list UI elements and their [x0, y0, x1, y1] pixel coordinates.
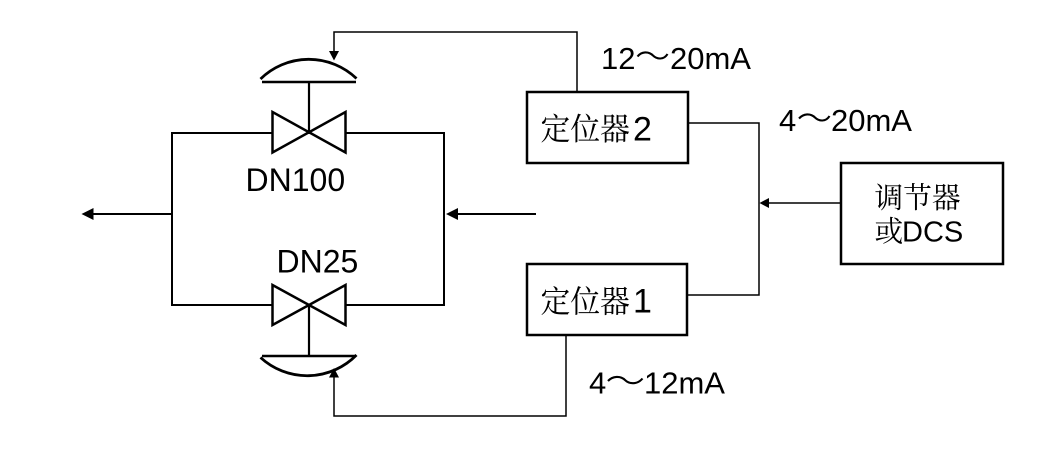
wire: signal from positioner2 top to actuator A1: [334, 32, 577, 92]
svg-text:12: 12: [601, 41, 635, 76]
pipe loop rectangle: [172, 133, 444, 305]
actuator A2 (bottom) diaphragm baseline: [262, 355, 356, 357]
valve V2 stem: [308, 305, 310, 356]
text 或DCS in controller box: [876, 217, 902, 244]
arrowhead: outlet arrow: [82, 208, 94, 220]
svg-text:20mA: 20mA: [831, 103, 912, 138]
actuator A1 (top) diaphragm baseline: [262, 81, 356, 83]
box positioner2 定位器2: [527, 92, 688, 163]
wire: positioner2 right to bus: [687, 123, 759, 295]
arrowhead: up into A2: [329, 368, 339, 378]
svg-text:20mA: 20mA: [670, 41, 751, 76]
box controller 调节器或DCS: [841, 163, 1003, 264]
wire: outlet line left: [90, 213, 172, 215]
wire: controller to bus: [768, 202, 841, 204]
svg-text:2: 2: [633, 111, 652, 149]
arrowhead: into bus: [760, 198, 770, 208]
tilde wave 1: [638, 52, 668, 58]
svg-text:DN100: DN100: [246, 162, 346, 198]
text 定位器1 in positioner1 box: [542, 286, 630, 315]
wire: inlet line right: [455, 213, 536, 215]
valve V1 (top, DN100) body: [273, 112, 346, 153]
valve V2 (bottom, DN25) body: [273, 285, 346, 325]
svg-text:1: 1: [633, 283, 652, 321]
actuator A1 dome arc: [261, 59, 357, 79]
tilde wave 3: [608, 377, 643, 383]
text 定位器2 in positioner2 box: [542, 114, 630, 143]
valve V1 stem: [308, 82, 310, 133]
svg-text:DCS: DCS: [902, 217, 963, 249]
svg-text:4: 4: [779, 103, 796, 138]
svg-text:12mA: 12mA: [644, 366, 725, 401]
box positioner1 定位器1: [527, 264, 687, 335]
arrowhead: inlet arrow: [446, 208, 458, 220]
actuator A2 dome arc: [261, 355, 357, 376]
svg-text:DN25: DN25: [277, 244, 359, 280]
tilde wave 2: [799, 114, 830, 120]
arrowhead: down into A1: [329, 51, 339, 61]
svg-text:4: 4: [589, 366, 606, 401]
wire: positioner1 bottom to actuator A2: [334, 335, 566, 416]
text 调节器 in controller box: [875, 183, 960, 210]
